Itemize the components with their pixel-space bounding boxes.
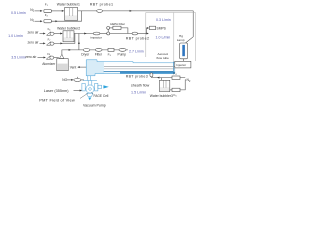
injector rod <box>104 65 175 67</box>
filter <box>95 48 102 51</box>
wire F5 to bubbler3 <box>170 89 172 91</box>
FAGE cell neck <box>87 81 89 86</box>
flow controller F5 <box>172 88 180 91</box>
impactor <box>93 32 100 35</box>
wire N2 to F2 <box>35 20 42 22</box>
flow controller F3 <box>108 48 114 51</box>
svg-text:1.0 L/min: 1.0 L/min <box>156 35 171 39</box>
wire bubbler2 to impactor <box>74 33 93 35</box>
svg-text:zero air: zero air <box>25 55 37 59</box>
svg-text:N2: N2 <box>30 18 34 23</box>
svg-text:sheath flow: sheath flow <box>131 84 150 88</box>
svg-text:Water bubbler2: Water bubbler2 <box>57 26 80 30</box>
svg-text:1.5 L/min: 1.5 L/min <box>131 91 146 95</box>
wire zero air3 to valve3 <box>38 57 45 59</box>
svg-text:Pump: Pump <box>118 53 127 57</box>
flow controller F2 <box>44 20 51 23</box>
valve (bypass upper) <box>107 26 110 29</box>
svg-text:Atomizer: Atomizer <box>42 62 56 66</box>
svg-text:2.7 L/min: 2.7 L/min <box>129 49 144 53</box>
svg-text:3.5 L/min: 3.5 L/min <box>11 55 26 59</box>
wire aerosol riser <box>78 34 80 50</box>
dryer <box>83 48 90 51</box>
wire valve3 to atomizer cap <box>54 57 59 59</box>
sheath flow line <box>151 77 185 79</box>
FAGE left window flange <box>82 83 85 91</box>
flow controller F4 <box>172 76 180 79</box>
wire zero air to valve <box>40 33 45 35</box>
svg-text:flow tube: flow tube <box>157 56 170 60</box>
svg-text:RBT probe3: RBT probe3 <box>126 74 148 78</box>
wire bypass2 riser <box>54 34 75 44</box>
svg-text:0.5 L/min: 0.5 L/min <box>11 11 26 15</box>
wire bubbler1 to RBT probe1 <box>78 10 97 12</box>
divider line <box>173 13 175 63</box>
wire F1 to water bubbler1 <box>51 10 63 12</box>
wire excess row <box>79 49 128 51</box>
FAGE nozzle funnel <box>87 93 93 96</box>
pump <box>119 48 126 51</box>
valve F7 <box>47 42 51 46</box>
svg-text:RBT probe1: RBT probe1 <box>90 2 114 6</box>
water bubbler3 <box>160 80 170 91</box>
valve F8 <box>46 56 50 60</box>
svg-text:Vent: Vent <box>70 65 77 69</box>
svg-text:1.0 L/min: 1.0 L/min <box>8 34 23 38</box>
aerosol flow tube body <box>86 60 104 76</box>
wire N2 split <box>180 80 186 90</box>
wire atomizer output <box>62 50 79 55</box>
svg-text:N2: N2 <box>187 78 191 83</box>
valve F6 <box>47 32 51 36</box>
svg-text:zero air: zero air <box>28 41 40 45</box>
RHT probe2 <box>132 32 137 35</box>
wire lamp to injector <box>183 59 185 62</box>
wire to RHT probe2 <box>110 33 133 35</box>
svg-text:Vacuum Pump: Vacuum Pump <box>83 103 106 107</box>
wire valve riser <box>107 29 109 32</box>
svg-text:N2: N2 <box>30 8 34 13</box>
wire impactor to valve junction <box>100 33 107 35</box>
enclosure frame <box>146 13 196 62</box>
NO valve <box>74 78 81 81</box>
wire probe2 to frame <box>138 33 148 35</box>
FAGE inlet <box>87 76 89 81</box>
SMPS <box>149 26 155 29</box>
svg-text:Water bubbler1: Water bubbler1 <box>57 3 80 7</box>
flow controller F1 <box>44 10 51 13</box>
injector box <box>175 61 191 68</box>
svg-text:HEPA Filter: HEPA Filter <box>110 22 125 26</box>
svg-text:Laser (355nm): Laser (355nm) <box>44 89 69 93</box>
svg-text:0.3 L/min: 0.3 L/min <box>156 18 171 22</box>
svg-text:Injector: Injector <box>176 63 186 67</box>
FAGE cell circle <box>86 85 94 93</box>
wire RBT probe1 to injector feed <box>103 11 194 43</box>
svg-text:Filter: Filter <box>95 53 103 57</box>
FAGE exhaust arrow <box>103 85 108 88</box>
FAGE exhaust duct <box>98 85 102 88</box>
FAGE right window flange <box>95 83 98 91</box>
svg-text:impactor: impactor <box>90 36 102 40</box>
flow tube outline <box>86 60 175 76</box>
wire bubbler3 output <box>160 78 162 81</box>
wire F2 bypass to junction <box>51 11 81 21</box>
svg-text:Dryer: Dryer <box>81 53 90 57</box>
valve (bypass lower) <box>107 32 110 35</box>
svg-text:zero air: zero air <box>28 31 40 35</box>
wire HEPA return <box>121 28 128 34</box>
svg-text:PMT Field of View: PMT Field of View <box>39 98 75 103</box>
svg-text:Lamp: Lamp <box>177 38 185 42</box>
wire zero air2 to valve2 <box>40 42 45 44</box>
wire sample to SMPS <box>146 28 149 34</box>
wire valve to water bubbler2 <box>54 33 62 35</box>
flow tube inner bore <box>104 63 173 71</box>
wire N2 to F1 <box>35 10 42 12</box>
svg-text:RBT probe2: RBT probe2 <box>126 36 150 40</box>
svg-text:Water bubbler3: Water bubbler3 <box>150 94 173 98</box>
svg-text:FAGE Cell: FAGE Cell <box>94 94 109 98</box>
svg-text:SMPS: SMPS <box>157 26 167 30</box>
